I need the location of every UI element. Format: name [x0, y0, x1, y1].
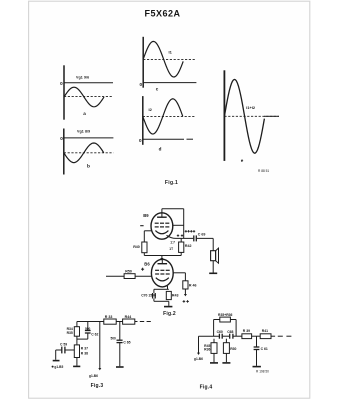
svg-text:R30: R30: [230, 347, 236, 351]
svg-text:R 38: R 38: [81, 351, 88, 355]
svg-text:Vg1 9/6: Vg1 9/6: [76, 75, 89, 79]
svg-text:R40: R40: [133, 245, 140, 249]
svg-text:0: 0: [139, 82, 142, 87]
svg-text:R35: R35: [67, 331, 73, 335]
svg-text:I1+I2: I1+I2: [246, 105, 256, 110]
svg-text:B9: B9: [143, 213, 149, 218]
svg-text:1T: 1T: [169, 247, 173, 251]
svg-text:R42: R42: [185, 244, 192, 248]
svg-text:B6: B6: [144, 261, 150, 266]
svg-text:R 37: R 37: [81, 346, 88, 350]
svg-text:C 59: C 59: [60, 342, 67, 346]
svg-text:g1-B6: g1-B6: [194, 357, 203, 361]
svg-text:g1-B5: g1-B5: [54, 365, 63, 369]
svg-text:R 33: R 33: [105, 315, 113, 319]
svg-text:R 39: R 39: [243, 329, 250, 333]
svg-text:Fig.4: Fig.4: [200, 384, 213, 390]
svg-text:C 65: C 65: [123, 340, 130, 344]
svg-text:0: 0: [60, 81, 63, 86]
svg-text:C 69: C 69: [198, 233, 206, 237]
svg-text:c: c: [156, 87, 159, 92]
svg-text:b: b: [87, 164, 90, 170]
svg-text:R50: R50: [125, 269, 132, 273]
svg-text:0: 0: [139, 138, 142, 143]
svg-text:R 88 51: R 88 51: [258, 169, 269, 173]
svg-text:500: 500: [85, 327, 91, 331]
svg-text:0: 0: [60, 136, 63, 141]
svg-text:C 61: C 61: [261, 347, 268, 351]
svg-text:d: d: [159, 147, 162, 152]
svg-text:e: e: [241, 158, 244, 163]
svg-text:C60: C60: [217, 330, 223, 334]
svg-text:C 62: C 62: [91, 333, 98, 337]
svg-text:C70 1500: C70 1500: [141, 293, 156, 297]
svg-text:R43: R43: [172, 294, 179, 298]
svg-text:g1-B6: g1-B6: [89, 374, 98, 378]
svg-text:Fig.3: Fig.3: [91, 383, 104, 389]
svg-text:a: a: [83, 111, 86, 116]
svg-text:1:7: 1:7: [170, 241, 175, 245]
svg-text:F5X62A: F5X62A: [144, 9, 180, 19]
svg-text:R36: R36: [204, 348, 210, 352]
svg-text:500: 500: [110, 337, 116, 341]
svg-text:C68: C68: [227, 330, 233, 334]
svg-text:R41: R41: [262, 329, 268, 333]
svg-text:Fig.1: Fig.1: [165, 180, 178, 186]
svg-text:Vg1 8/9: Vg1 8/9: [77, 130, 90, 134]
svg-text:R35+R36: R35+R36: [218, 313, 233, 317]
svg-text:R44: R44: [125, 315, 132, 319]
svg-text:R 46: R 46: [189, 283, 197, 287]
svg-text:Fig.2: Fig.2: [163, 311, 176, 317]
svg-text:R 198 50: R 198 50: [256, 369, 269, 373]
